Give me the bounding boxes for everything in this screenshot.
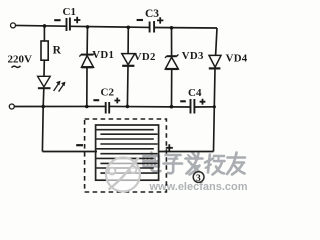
wire top rail left — [16, 24, 66, 27]
svg-text:C4: C4 — [188, 87, 202, 99]
C3 plus — [157, 17, 163, 23]
char 发 — [186, 153, 203, 175]
battery plus — [166, 144, 173, 151]
diode VD4 — [209, 55, 221, 67]
wire resistor branch — [43, 26, 45, 41]
capacitor C4 — [190, 99, 192, 114]
wire mid rail left — [14, 105, 105, 107]
node R top — [43, 24, 47, 28]
C2 plus — [114, 98, 120, 104]
watermark logo circle — [106, 158, 140, 192]
node VD3 top — [170, 26, 174, 30]
label AC tilde — [12, 66, 21, 68]
wire battery right — [158, 151, 214, 153]
diode VD2 — [122, 54, 135, 65]
char 烧 — [205, 155, 225, 175]
C4 minus — [180, 100, 186, 102]
node VD2 top — [127, 26, 131, 30]
wire top rail right — [154, 27, 217, 30]
wire battery left — [42, 151, 97, 153]
capacitor C3 — [149, 22, 151, 33]
resistor R — [41, 41, 48, 60]
capacitor C2 — [105, 102, 107, 114]
battery minus — [76, 144, 83, 146]
node LED bottom — [41, 105, 45, 109]
wire right vertical — [216, 28, 217, 55]
circuit dark strokes — [9, 18, 221, 152]
terminal top-left — [11, 23, 16, 28]
wire LED to mid rail and down to battery — [42, 89, 43, 152]
svg-text:VD4: VD4 — [226, 52, 248, 64]
svg-text:C1: C1 — [63, 6, 76, 18]
node VD1 top — [86, 25, 90, 29]
polarity signs — [54, 17, 205, 152]
C4 plus — [200, 99, 206, 105]
junction dots — [41, 24, 216, 108]
svg-text:VD3: VD3 — [182, 50, 204, 62]
svg-text:3: 3 — [196, 174, 201, 184]
diode VD3 wire — [171, 28, 173, 56]
svg-text:C3: C3 — [145, 8, 159, 20]
diode VD1 — [81, 54, 93, 56]
wire top rail mid — [70, 26, 149, 27]
capacitor C1 — [66, 18, 68, 31]
char 子 — [164, 155, 183, 173]
LED D — [38, 76, 51, 87]
svg-text:R: R — [53, 44, 62, 56]
node right rail mid — [213, 105, 216, 108]
C1 plus — [74, 17, 80, 23]
battery stack — [96, 125, 159, 180]
wire mid rail right — [194, 106, 214, 108]
node VD3 bottom — [170, 105, 174, 109]
figure mark circled 3 — [193, 172, 204, 184]
terminal bottom-left — [9, 104, 14, 109]
wire mid rail center — [109, 105, 190, 108]
char 电 — [144, 153, 161, 172]
LED arrows — [54, 84, 59, 91]
svg-text:C2: C2 — [101, 87, 115, 99]
C1 minus — [54, 19, 60, 21]
node VD2 bottom — [126, 105, 130, 109]
svg-text:VD1: VD1 — [92, 49, 114, 61]
watermark text 电子发烧友 (faked strokes) — [144, 153, 246, 175]
diode VD2 wire — [127, 27, 129, 53]
diode VD1 wire — [86, 27, 88, 55]
node VD1 bottom — [85, 105, 89, 109]
svg-text:220V: 220V — [8, 54, 33, 66]
svg-text:VD2: VD2 — [134, 51, 156, 63]
dashed enclosure — [85, 119, 167, 192]
C2 minus — [93, 99, 99, 101]
char 友 — [227, 153, 245, 175]
C3 minus — [137, 19, 143, 21]
diode VD3 — [167, 55, 177, 57]
